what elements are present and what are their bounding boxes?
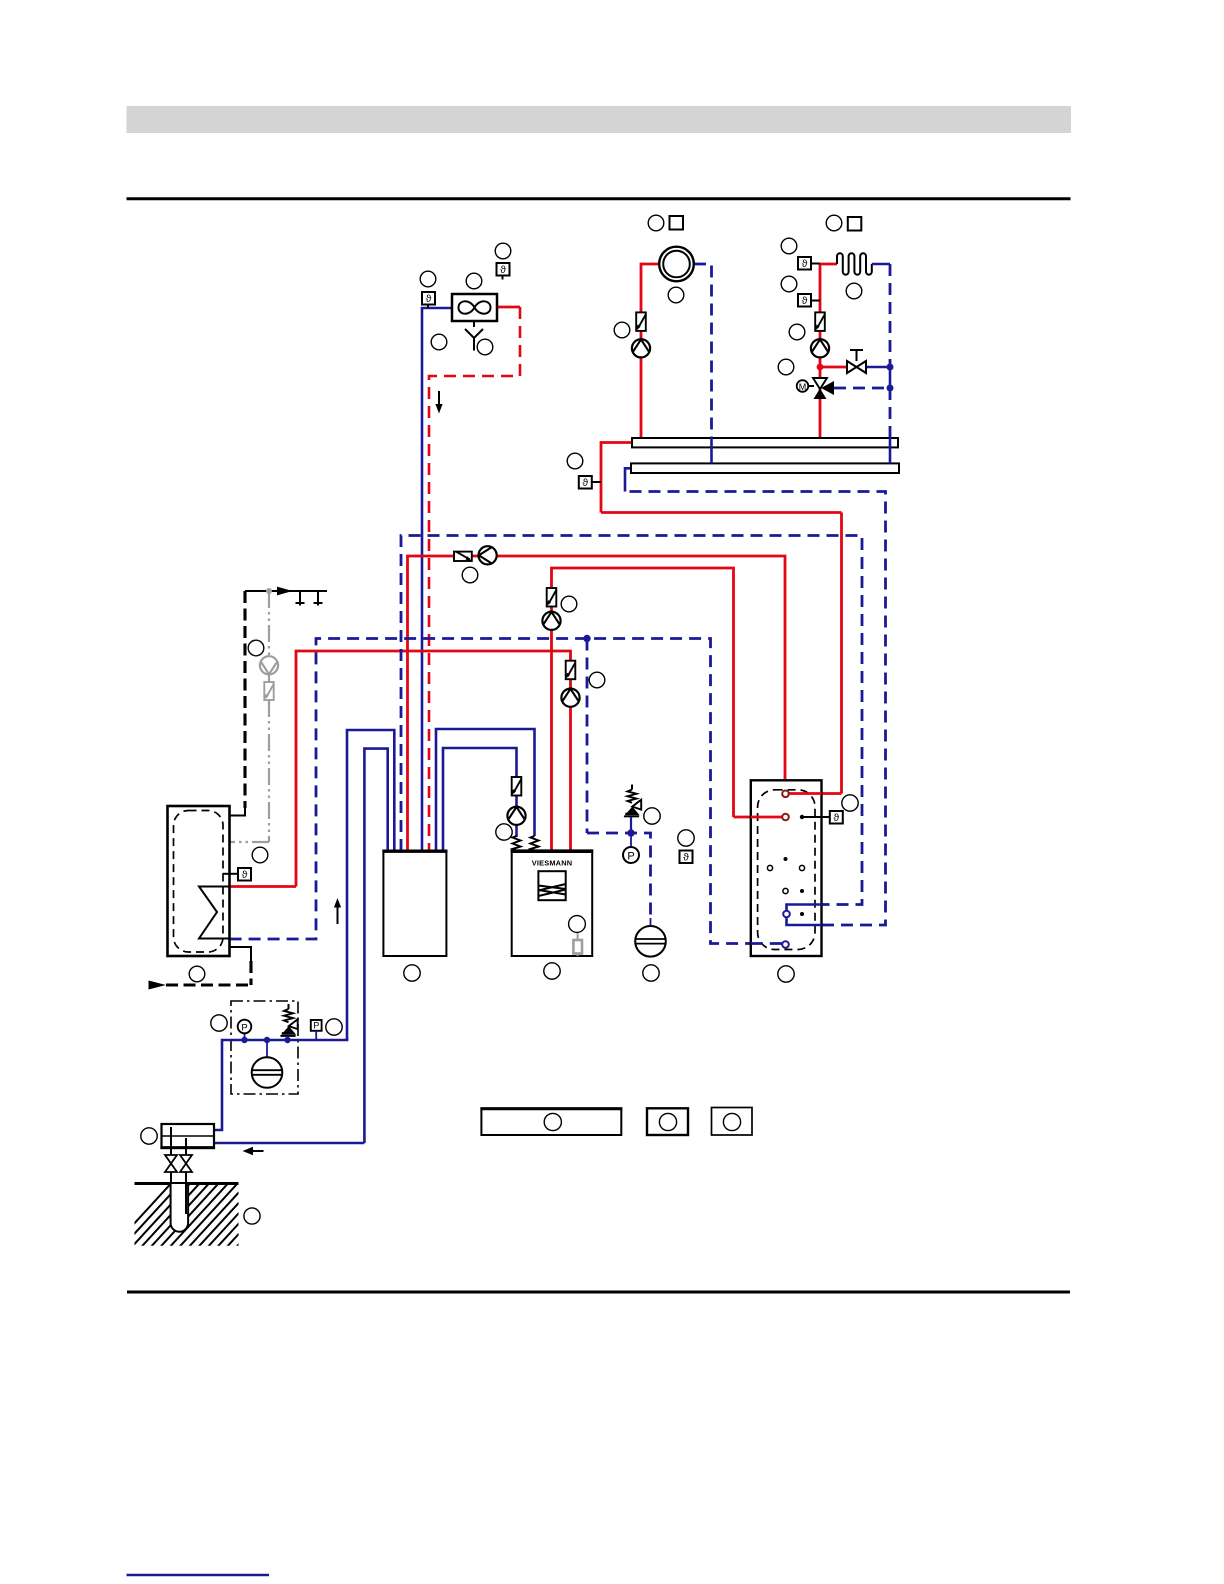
label circle link pump [496,824,512,840]
ground hatch [110,1178,300,1250]
wire: DHW pipe top [245,590,327,592]
return manifold bar [631,463,899,473]
wire: riser to buffer top [840,513,843,794]
wire: DHW riser dashed [243,591,246,808]
label circle below HC1 [668,287,684,303]
node gauge [241,1037,247,1043]
header rule [127,197,1071,200]
sensor box HC2 flow 1 [812,263,821,265]
label circle fan air sensor [495,243,511,259]
label circle HC2 b [781,276,797,292]
arrow up brine [337,906,339,924]
wire: blue dashed return HC1 [694,264,712,437]
label circle distributor [141,1128,157,1144]
dash-dot enclosure [231,1001,298,1094]
arrow brine return [252,1150,264,1152]
check valve loading (horizontal) [454,552,472,561]
wire: red stub into port1 (redraw over shell) [786,792,822,795]
label circle gray port [252,847,268,863]
node red tee [817,364,824,371]
header band [127,106,1072,133]
wire: cold water inlet [230,947,251,963]
label circle circulation [248,640,264,656]
label circle check HC2 [789,324,805,340]
pump HP flow upper [542,612,560,630]
label square HC2 [848,217,862,231]
label circle HC1 [648,215,664,231]
valve stems below [170,1172,172,1184]
wire: buffer feed to manifold [601,511,842,514]
borehole probe [171,1184,189,1232]
sensor box manifold [591,481,601,483]
label circle HP upper [561,596,577,612]
pump HC1 [632,339,650,357]
fan blades [459,301,491,313]
svg-text:P: P [627,850,634,862]
wire: link A-B upper [436,729,535,851]
wire: link A-B lower [443,748,517,851]
spring connector left [513,836,521,851]
check valve HP flow lower [565,661,575,680]
svg-text:M: M [799,382,807,392]
pressure gauge brine [244,1033,246,1040]
tap symbols [296,591,323,606]
label circle cold water [189,966,205,982]
wire: red supply HC1 [641,264,659,438]
pressure gauge heating [630,836,632,848]
wire: red to coil [230,885,296,888]
label circle bypass [778,359,794,375]
legend box mid [647,1108,688,1135]
VIESMANN unit box [512,851,593,956]
label circle right of group [326,1019,342,1035]
label square HC1 [670,216,684,230]
valve stems [170,1127,172,1155]
expansion vessel heating [650,918,652,927]
wire: HP flow line to buffer mid [552,568,734,851]
label circle valve group [644,808,660,824]
node vessel [264,1037,270,1043]
red feed manifold left [601,443,632,513]
wire: DHW-loading line unit A to buffer [408,556,786,851]
check valve HP flow upper [546,588,556,607]
port blue bottom [782,941,789,948]
check valve HC1 [635,312,645,331]
wire: red supply HC2 [820,264,837,438]
label circle buffer sensor [842,795,858,811]
sensor box fan flow [427,304,429,309]
wire: HP flow to DHW coil [296,651,571,887]
pump HC2 [811,339,829,357]
circulation pump gray [260,656,278,674]
wire: blue dashed stub into bottom port [751,942,786,945]
wire: red bypass [820,366,847,369]
label circle borehole [244,1208,260,1224]
label circle condensate left [431,334,447,350]
node safety [284,1037,290,1043]
safety valve brine [280,1004,297,1036]
wire: blue valve to riser [866,366,890,369]
sensor box DHW [223,873,239,875]
spring connector right [531,836,539,851]
unit A box [383,851,446,956]
HC1 circuit symbol (double circle) [659,247,694,282]
svg-text:P: P [313,1021,319,1031]
expansion vessel brine [266,1040,268,1058]
check valve HC2 [814,312,824,331]
node blue [887,364,894,371]
motor M [808,385,814,387]
label circle left of group [211,1015,227,1031]
wire: unit A return bus [401,536,862,905]
buffer spare ports [784,857,788,861]
electric heater gray [577,933,579,956]
wire: brine return loop [364,749,387,1143]
wire: red dashed fan return [497,306,520,309]
wire: HC1 return crossing [710,437,713,463]
sensor box buffer lower [680,851,693,864]
shutoff valve left [165,1155,177,1164]
label circle fan unit [466,273,482,289]
legend box wide [481,1108,621,1135]
wire: DHW coil return bus [230,639,786,944]
safety valve heating [624,785,641,817]
svg-text:P: P [241,1022,247,1033]
label circle buffer sensor2 [678,830,694,846]
wire: red stub into port2 [751,816,786,819]
wire: blue dashed mixer link [834,387,890,390]
wire: blue return HC2 [872,263,890,266]
blue return manifold left [625,468,631,491]
node expansion tap [583,635,590,642]
svg-text:VIESMANN: VIESMANN [532,859,573,868]
footer rule [127,1291,1070,1294]
sensor dot + line buffer [800,815,804,819]
supply manifold bar [632,438,898,447]
condensate Y symbol [465,321,483,351]
label circle unit B [544,963,560,979]
label circle buffer [778,966,794,982]
wire: circulation gray [266,588,272,594]
check valve gray [268,674,270,682]
sensor box HC2 flow 2 [812,300,821,302]
wire: HC2 return crossing [889,437,892,463]
wire: buffer top port stub [786,792,842,795]
sensor box fan air [502,275,504,280]
footer blue underline [127,1574,270,1577]
label circle HC2 a [781,238,797,254]
shutoff valve bypass [856,350,858,361]
wire: blue supply fan unit to unit A [422,308,452,851]
label circle coil [846,283,862,299]
label circle condensate right [477,339,493,355]
DHW inner vessel dashed [174,811,224,953]
ground line [135,1182,239,1185]
label circle HC2 [826,215,842,231]
distributor box [162,1124,215,1148]
label circle manifold sensor [567,453,583,469]
pump loading (horizontal) [479,546,497,564]
node safety tee [627,829,634,836]
wire: brine heavy line [214,1038,347,1130]
pressure sensor square [311,1020,322,1031]
wire: expansion tap [586,639,589,834]
DHW heating coil [199,887,230,939]
pump HP flow lower [561,689,579,707]
shutoff valve right [180,1155,192,1164]
wire: buffer mid port stub [734,816,787,819]
arrow DHW draw [277,587,293,596]
DHW cylinder shell [168,806,230,956]
port top red [782,791,789,798]
label circle loading pump [462,567,478,583]
label circle fan sensor [420,271,436,287]
label circle check HC1 [614,322,630,338]
3-way mixing valve [813,378,827,389]
check valve link [511,777,521,796]
port blue C [783,911,790,918]
label circle inside unit B [569,916,586,933]
label circle HP lower [589,672,605,688]
arrow cold water [149,981,167,990]
fan unit box [452,294,497,321]
pump link [507,807,525,825]
heating coil radiator [837,253,872,274]
flow arrow down [438,391,440,405]
wire: brine thin return [214,1142,364,1145]
buffer inner vessel dashed [758,790,815,950]
label circle unit A [404,965,420,981]
wire: brine supply loop [347,730,394,1040]
wire: manifold return to buffer [625,492,886,926]
buffer shell [751,780,822,956]
legend box right [712,1108,753,1136]
compressor symbol [538,871,565,900]
node blue [887,385,894,392]
label circle vessel [643,965,659,981]
wire: buffer lower tap C [787,905,823,926]
port mid red [782,814,789,821]
